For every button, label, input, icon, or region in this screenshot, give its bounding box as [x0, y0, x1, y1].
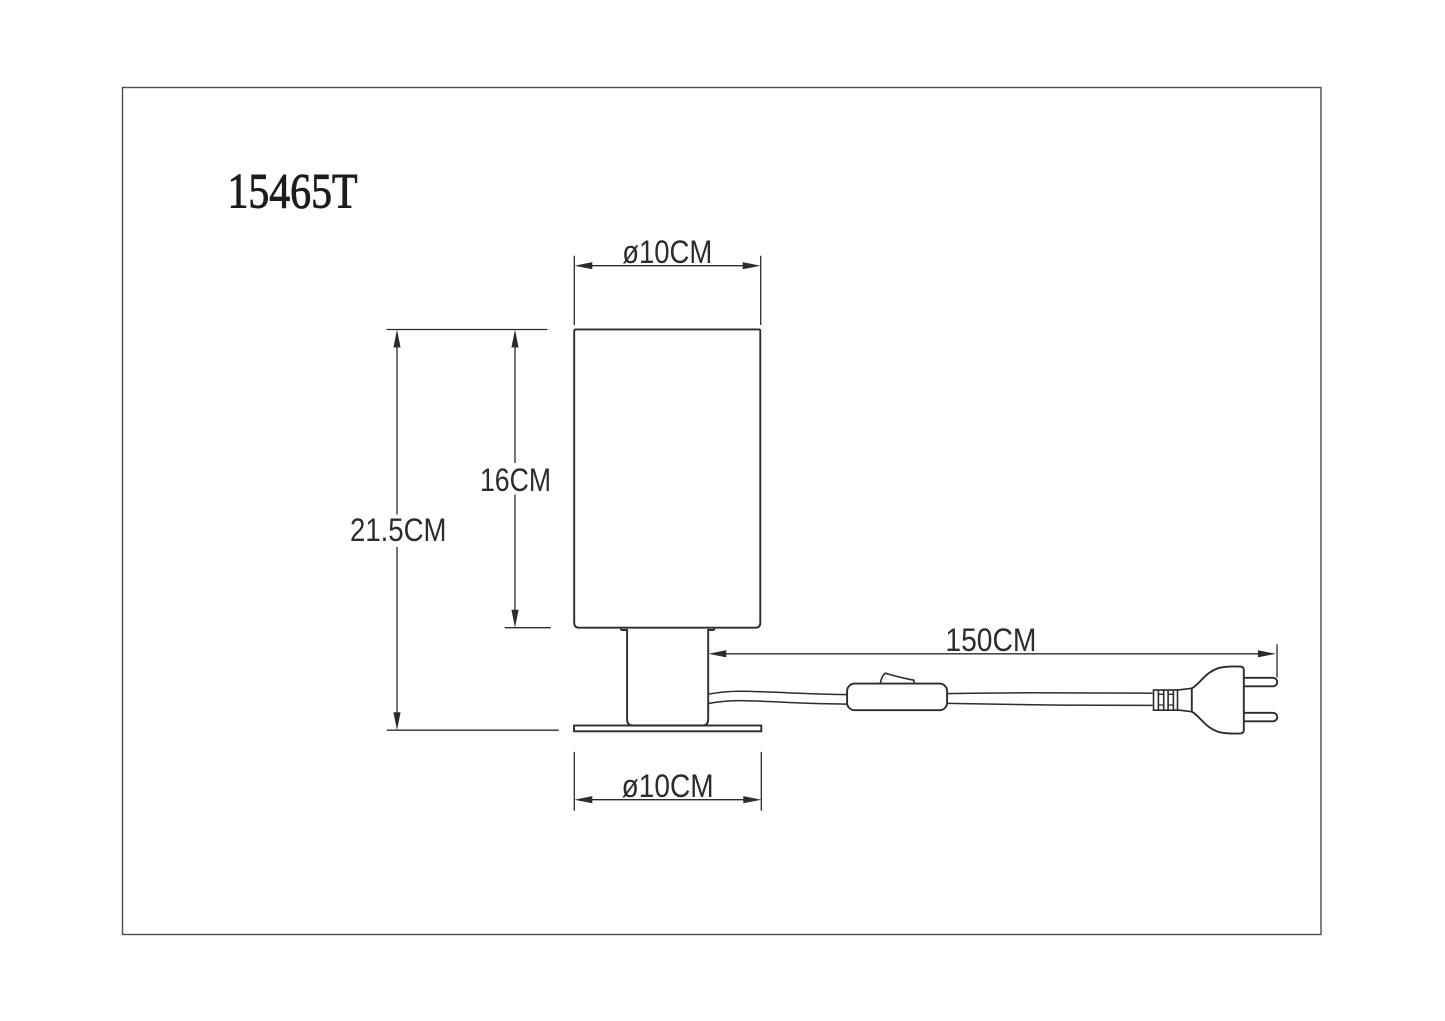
svg-text:ø10CM: ø10CM	[622, 234, 712, 270]
svg-text:ø10CM: ø10CM	[622, 768, 714, 804]
svg-text:21.5CM: 21.5CM	[350, 512, 447, 548]
svg-text:15465T: 15465T	[228, 163, 358, 219]
svg-text:150CM: 150CM	[945, 622, 1036, 658]
svg-text:16CM: 16CM	[480, 462, 551, 498]
